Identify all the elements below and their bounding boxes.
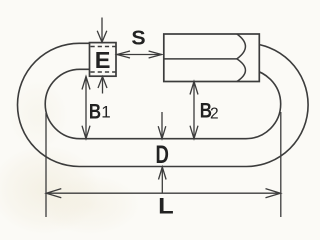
dashed wire through gate [91,47,116,73]
nut end arcs [237,34,246,82]
svg-text:1: 1 [101,103,110,122]
svg-text:E: E [95,47,111,73]
L left extension line [45,113,47,217]
S dimension arrow [117,54,162,56]
nut seam line [164,58,237,60]
svg-text:2: 2 [210,105,219,122]
wire inner outline [45,69,280,138]
svg-text:L: L [158,193,174,218]
E bottom arrow [102,77,104,94]
svg-text:B: B [89,99,101,123]
svg-text:D: D [156,142,169,169]
dimension lines [46,18,281,218]
D lower arrow [161,167,163,193]
L dimension line [46,192,281,194]
nut (sleeve) body [164,34,259,82]
B2 dimension line [193,82,195,139]
wire outer outline [17,43,308,166]
svg-text:S: S [131,27,145,49]
D upper arrow [161,112,163,139]
E top arrow [101,18,103,43]
gate box E [90,43,117,77]
gap eraser (opening between gate and nut) [117,39,164,72]
L right extension line [280,112,282,217]
B1 dimension line [85,77,87,139]
